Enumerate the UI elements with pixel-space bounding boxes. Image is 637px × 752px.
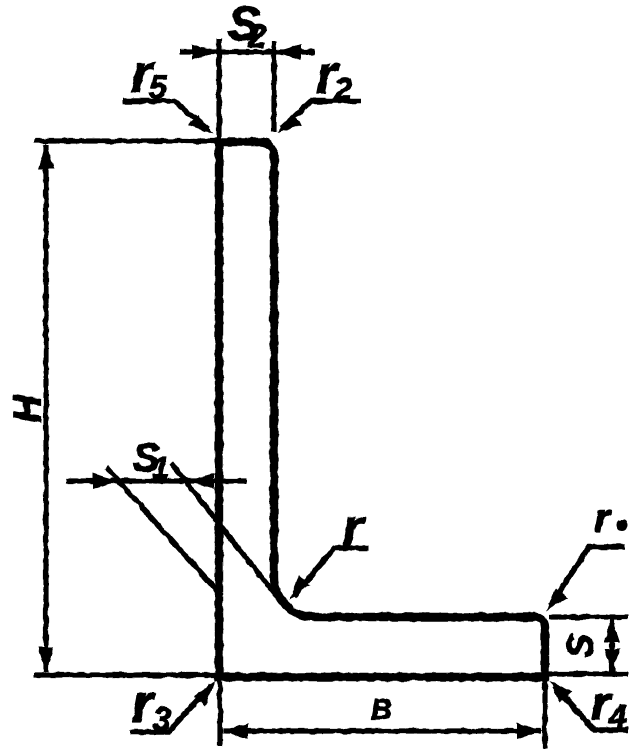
extension line top (H) <box>34 138 219 143</box>
arrowhead S2 right <box>275 44 301 60</box>
arrowhead S2 left <box>192 44 218 60</box>
extension line S right bottom <box>549 671 628 676</box>
leader r5 <box>123 101 208 129</box>
dimension line S2 <box>180 49 315 54</box>
svg-text:4: 4 <box>608 698 627 734</box>
leader r <box>294 548 369 596</box>
arrowhead B right <box>517 723 543 739</box>
extension line S right top <box>549 614 628 619</box>
dimension line S <box>609 619 614 672</box>
arrowhead r2 <box>277 114 302 133</box>
arrowhead r1 <box>546 588 568 611</box>
oblique extension line S1 right <box>171 463 278 598</box>
svg-text:r: r <box>594 497 612 541</box>
svg-text:5: 5 <box>149 69 168 105</box>
svg-text:3: 3 <box>153 701 171 737</box>
dimension line B <box>223 728 541 733</box>
svg-text:1: 1 <box>152 452 169 485</box>
dimension line H <box>43 145 48 672</box>
arrowhead B left <box>222 723 248 739</box>
angle profile outline <box>219 142 545 677</box>
svg-text:2: 2 <box>247 18 266 54</box>
svg-text:B: B <box>371 694 392 726</box>
svg-text:2: 2 <box>333 71 352 107</box>
arrowhead H bottom <box>38 647 54 673</box>
svg-text:S: S <box>560 634 601 658</box>
extension line S2 left <box>216 38 221 140</box>
extension line B left <box>217 681 222 746</box>
arrowhead H top <box>38 143 54 169</box>
arrowhead S bottom <box>604 649 620 673</box>
extension line B right <box>542 681 547 748</box>
leader r1 <box>550 547 625 606</box>
arrowhead S1 right <box>188 473 214 489</box>
arrowhead r4 <box>550 681 572 703</box>
svg-text:H: H <box>6 394 49 423</box>
leader r2 <box>282 101 361 128</box>
leader r4 <box>554 686 628 730</box>
svg-text:r: r <box>342 498 366 558</box>
arrowhead r5 <box>188 115 213 134</box>
extension line bottom (H) <box>34 672 219 677</box>
arrowhead r3 <box>194 681 215 706</box>
arrowhead S top <box>604 618 620 642</box>
dimension line S1 <box>66 478 246 483</box>
extension line S2 right <box>271 41 276 132</box>
arrowhead r <box>289 575 310 600</box>
oblique extension line S1 left <box>106 467 218 592</box>
arrowhead S1 left <box>93 473 118 489</box>
leader r3 <box>130 686 211 732</box>
